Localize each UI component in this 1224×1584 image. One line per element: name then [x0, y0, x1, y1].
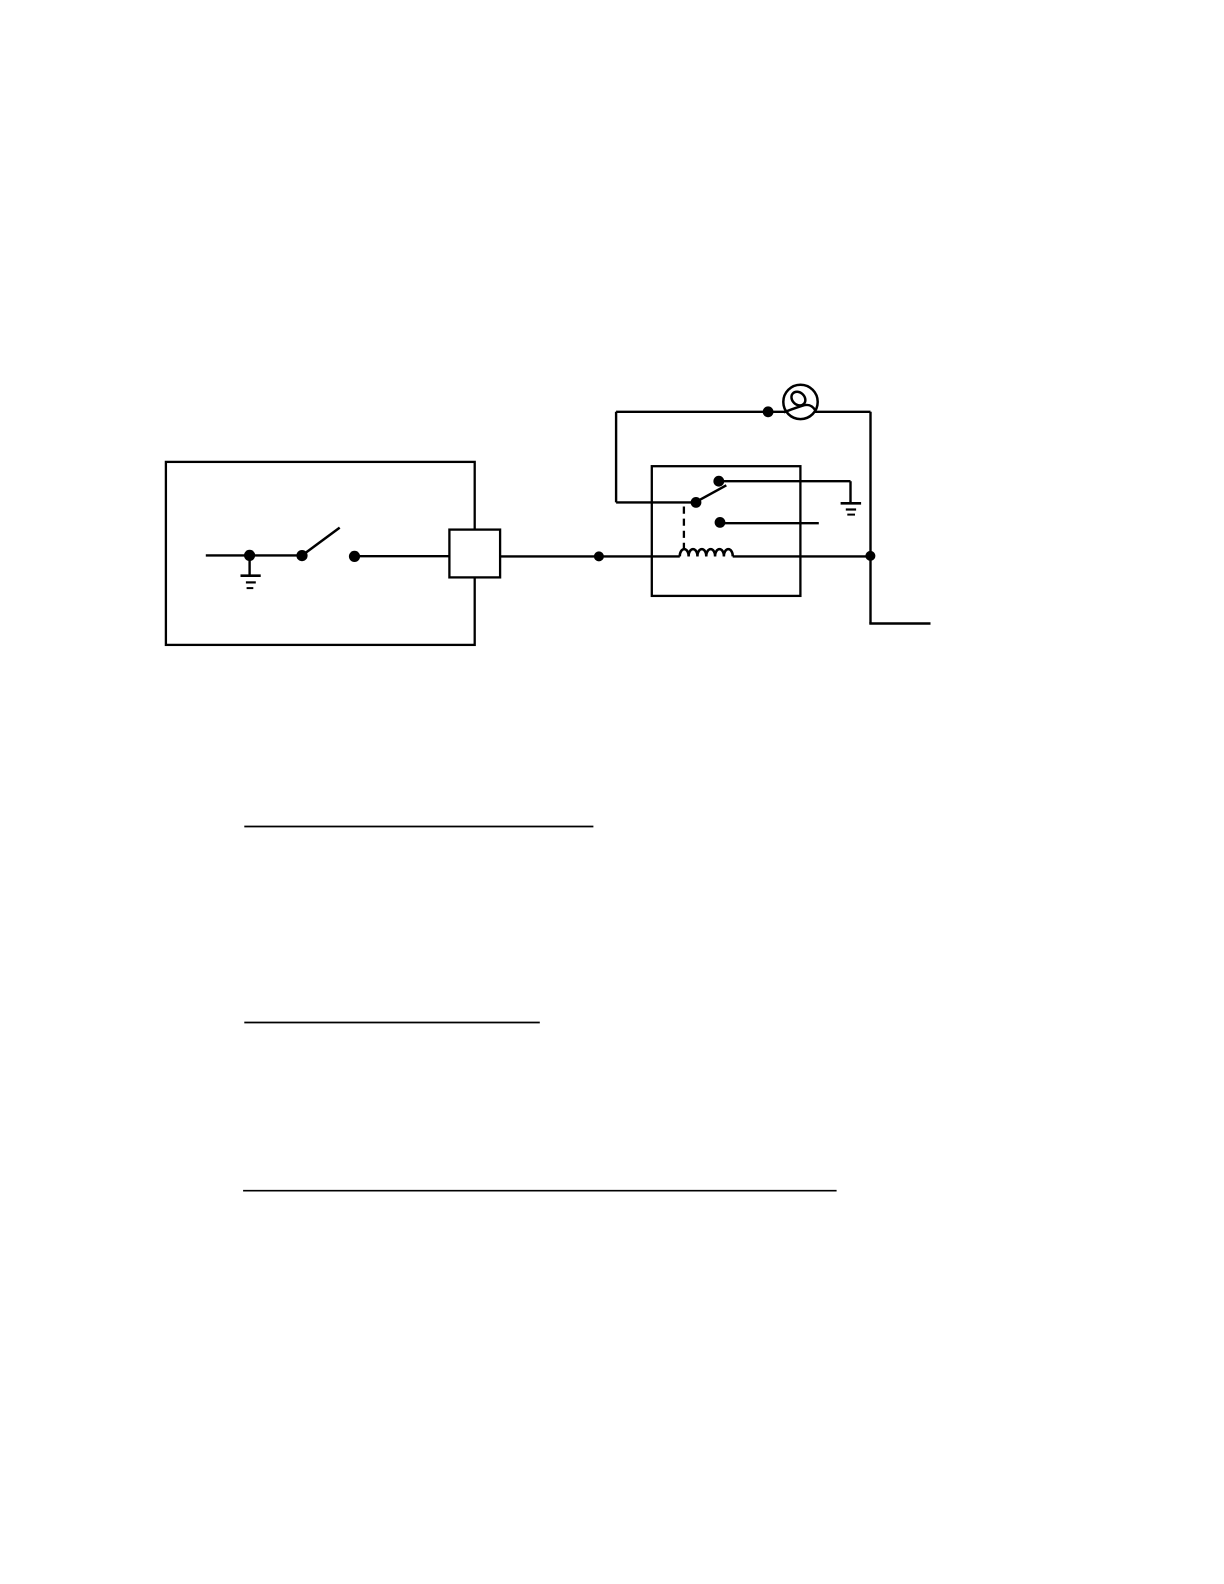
blank answer line 2 [244, 1022, 540, 1024]
blank answer line 1 [244, 826, 593, 828]
node: relay NC contact [713, 476, 724, 487]
wire: coil to right junction [733, 555, 871, 557]
wire: feed into switch [206, 554, 250, 556]
wire: switch contact to connector [355, 555, 450, 557]
node: switch open contact [349, 551, 360, 562]
node: relay armature pivot [691, 497, 702, 508]
wire: loop left vertical [615, 412, 617, 503]
relay box [652, 466, 801, 596]
wire: top feed to lamp [616, 411, 870, 413]
node: relay NO contact [715, 517, 726, 528]
lamp DS1 bulb [783, 385, 817, 419]
wire: lamp to right rail [869, 412, 871, 624]
switch S1 blade (open) [305, 528, 340, 554]
wire: ground drop [248, 555, 250, 575]
relay armature blade [698, 485, 726, 501]
switch housing box [166, 462, 475, 645]
node B right junction [865, 551, 875, 561]
wire: bottom stub right [869, 622, 930, 624]
wire: connector to relay coil [500, 555, 680, 557]
lamp filament sweep [784, 405, 816, 412]
ground G1 [241, 576, 261, 588]
node: switch pivot [296, 550, 307, 561]
connector block (square) [449, 530, 500, 578]
node: lamp feed tap [763, 406, 774, 417]
wire: ground drop right [849, 481, 851, 502]
ground G2 [841, 503, 862, 514]
relay coil L1 [680, 549, 733, 556]
node: ground tap [244, 550, 255, 561]
lamp filament loop [789, 389, 808, 408]
blank answer line 3 [243, 1190, 837, 1192]
dashed actuator link [683, 507, 685, 549]
wire: NC contact to ground [719, 480, 851, 482]
wire: ground tap to switch pivot [250, 554, 302, 556]
node A junction [594, 551, 604, 561]
wire: to relay armature pivot [616, 501, 696, 503]
wire: NO contact stub [720, 522, 819, 524]
